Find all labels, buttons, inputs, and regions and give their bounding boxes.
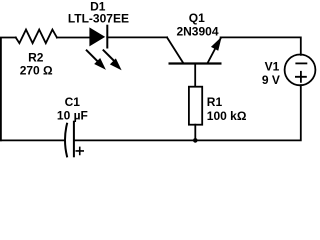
svg-text:10 µF: 10 µF [57, 109, 88, 123]
svg-text:V1: V1 [265, 60, 280, 74]
svg-text:100 kΩ: 100 kΩ [207, 109, 247, 123]
svg-text:9 V: 9 V [262, 73, 280, 87]
transistor Q1 base lead wire [194, 64, 196, 87]
wire bottom rail left of C1 [1, 139, 64, 141]
capacitor C1 curved plate [65, 124, 67, 157]
wire Q1 emitter to V1 top [221, 37, 301, 55]
transistor Q1 base bar [170, 62, 221, 64]
svg-text:R2: R2 [28, 51, 44, 65]
capacitor C1 straight plate [73, 122, 75, 157]
svg-text:C1: C1 [65, 95, 81, 109]
wire R1 to bottom rail [194, 125, 196, 141]
resistor R2 [16, 30, 57, 44]
resistor R1 box [189, 87, 202, 125]
svg-text:270 Ω: 270 Ω [20, 64, 53, 78]
LED D1 cathode bar [106, 26, 108, 48]
svg-text:Q1: Q1 [189, 11, 205, 25]
wire V1 bottom to bottom rail [74, 85, 301, 140]
capacitor C1 plus sign [76, 147, 83, 154]
V1 minus sign [296, 62, 306, 64]
LED D1 emission arrow 1 [87, 50, 105, 68]
svg-text:R1: R1 [207, 95, 223, 109]
transistor Q1 emitter diagonal with arrow [208, 38, 221, 63]
node junction dot [193, 138, 198, 143]
voltage source V1 circle [285, 55, 316, 86]
transistor Q1 collector diagonal [167, 37, 183, 62]
svg-text:2N3904: 2N3904 [176, 24, 218, 38]
svg-text:LTL-307EE: LTL-307EE [68, 12, 129, 26]
wire R2 to D1 [57, 37, 90, 39]
wire left rail [1, 38, 16, 141]
V1 plus sign [296, 72, 306, 82]
LED D1 emission arrow 2 [104, 50, 121, 69]
wire D1 to Q1 collector [107, 36, 167, 38]
LED D1 anode triangle [90, 28, 104, 45]
